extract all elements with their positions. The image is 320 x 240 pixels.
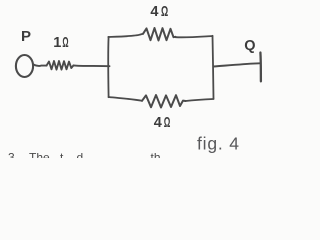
svg-text:P: P: [21, 28, 31, 45]
svg-text:th: th: [151, 151, 161, 159]
svg-text:fig. 4: fig. 4: [197, 134, 240, 154]
svg-text:4: 4: [154, 115, 162, 131]
svg-text:d: d: [77, 151, 84, 159]
svg-text:1: 1: [53, 35, 61, 51]
svg-text:Ω: Ω: [62, 35, 68, 51]
svg-text:The: The: [29, 151, 50, 159]
svg-text:Q: Q: [244, 38, 255, 54]
svg-text:Ω: Ω: [161, 4, 168, 20]
svg-text:3.: 3.: [8, 151, 18, 159]
svg-text:t: t: [60, 151, 64, 159]
svg-text:Ω: Ω: [164, 115, 171, 131]
svg-text:4: 4: [150, 4, 158, 20]
